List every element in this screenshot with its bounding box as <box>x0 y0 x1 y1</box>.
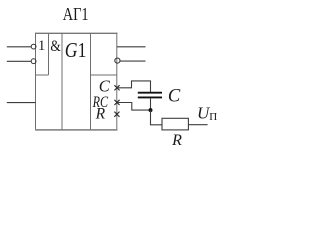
svg-text:UП: UП <box>197 104 217 123</box>
svg-text:&: & <box>50 38 61 55</box>
junction node dot <box>149 108 153 112</box>
input bubble 1 <box>31 44 36 49</box>
pin cross RC <box>114 100 119 105</box>
svg-text:АГ1: АГ1 <box>63 4 89 24</box>
output wire 2 <box>120 60 146 62</box>
svg-text:C: C <box>168 87 181 107</box>
wire C pin to capacitor <box>117 81 151 92</box>
horizontal divider in right field <box>91 74 118 76</box>
capacitor C1 bottom plate <box>138 96 162 98</box>
svg-text:1: 1 <box>38 38 45 54</box>
svg-text:R: R <box>171 132 182 149</box>
divider left of pin-label field <box>90 33 92 129</box>
wire node down to resistor <box>151 110 163 125</box>
divider right of "&" field <box>61 33 63 129</box>
input wire 2 <box>7 60 32 62</box>
wire RC pin to node <box>117 103 151 111</box>
input wire 3 <box>7 102 36 104</box>
svg-text:R: R <box>95 106 106 123</box>
input bubble 2 <box>31 59 36 64</box>
IC body U1 (АГ1 monostable) outline <box>35 33 37 131</box>
divider right of "1" field <box>48 33 50 75</box>
output bubble 2 <box>115 58 120 63</box>
pin cross C <box>114 85 119 90</box>
svg-text:C: C <box>99 76 111 95</box>
resistor R1 body <box>162 118 188 130</box>
capacitor C1 top plate <box>138 92 162 94</box>
capacitor bottom lead <box>150 98 152 110</box>
svg-text:G1: G1 <box>65 38 87 62</box>
pin cross R <box>114 112 119 117</box>
input wire 1 <box>7 46 32 48</box>
bottom line of "1" field <box>36 74 49 76</box>
wire resistor to supply <box>188 124 207 126</box>
output wire 1 <box>117 46 146 48</box>
